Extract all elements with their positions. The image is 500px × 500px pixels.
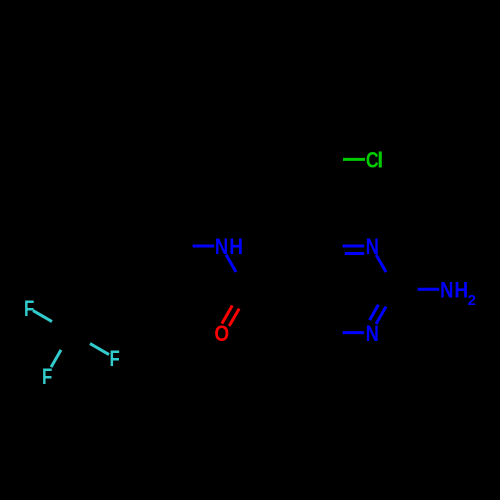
bond N3=C4 inner: [345, 252, 364, 255]
bond Cl-ring: [343, 158, 365, 161]
svg-text:O: O: [214, 321, 229, 346]
bond C=O line a: [229, 309, 239, 326]
bond N1=C2 main: [376, 307, 386, 324]
bond N(H)-C(=O): [226, 255, 236, 272]
bond F3-CF3: [90, 344, 109, 355]
svg-text:F: F: [42, 364, 52, 389]
bond N3-C2: [376, 255, 386, 272]
svg-text:N: N: [366, 234, 379, 259]
bond N(H2)-C2: [418, 288, 440, 291]
svg-text:F: F: [24, 296, 34, 321]
svg-text:l: l: [377, 148, 383, 173]
svg-text:2: 2: [468, 292, 476, 309]
svg-text:N: N: [366, 321, 379, 346]
svg-text:H: H: [229, 234, 243, 259]
svg-text:F: F: [109, 346, 119, 371]
svg-text:N: N: [215, 234, 228, 259]
bond N3=C4 main: [343, 245, 365, 248]
bond F1-CF3: [33, 311, 52, 322]
bond N(H)-phenyl: [193, 245, 215, 248]
bond N1-C6: [343, 331, 365, 334]
bond N1=C2 inner: [370, 305, 379, 320]
bond F2-CF3: [51, 350, 61, 367]
svg-text:H: H: [454, 277, 468, 302]
bond C=O line b: [222, 306, 232, 324]
svg-text:N: N: [440, 277, 453, 302]
